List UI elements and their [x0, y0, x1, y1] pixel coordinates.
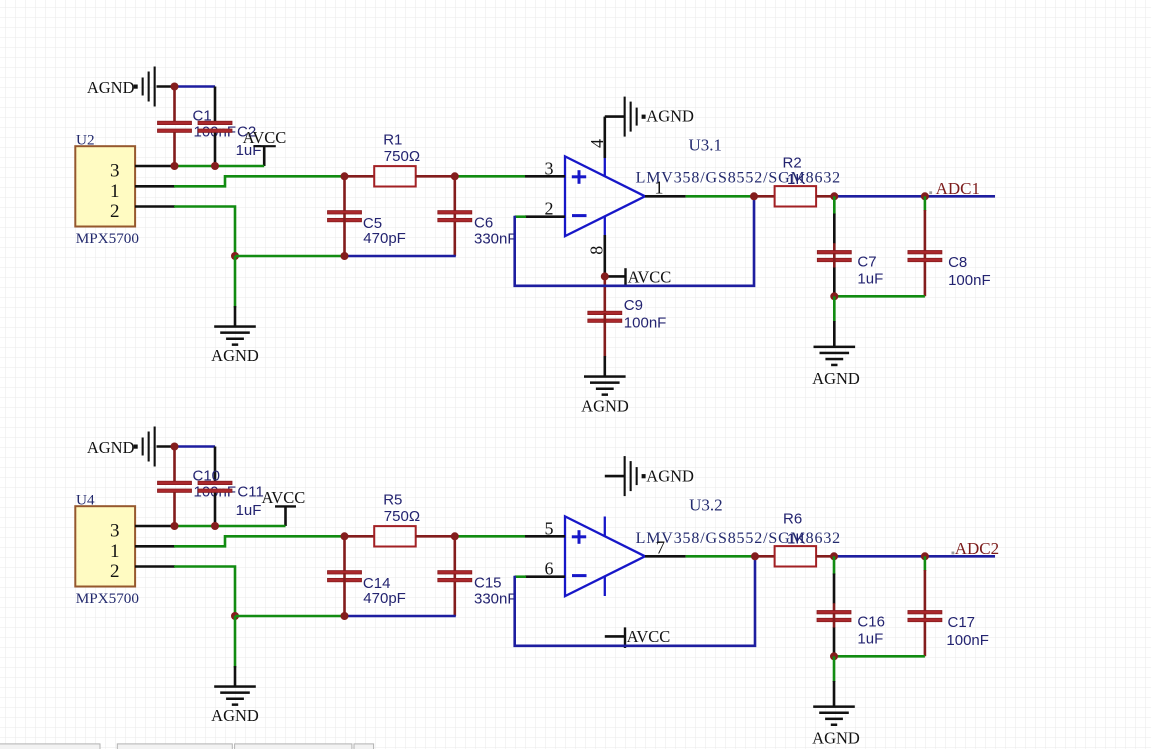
svg-text:MPX5700: MPX5700 — [76, 230, 140, 247]
ground AGND under C9 — [584, 375, 626, 396]
junction R2/C7 — [830, 192, 838, 200]
junction ADC1/C8 — [921, 192, 929, 200]
junction R6/C16 — [830, 552, 838, 560]
svg-text:ADC1: ADC1 — [936, 179, 980, 198]
wire ground stub under pin2 rail B — [234, 666, 237, 686]
wire C2 top lead down — [214, 87, 217, 122]
wire rail down to ground — [833, 296, 836, 322]
svg-text:C16: C16 — [857, 613, 885, 630]
svg-text:R5: R5 — [383, 491, 402, 508]
wire pin3 net to AVCC — [175, 165, 265, 168]
svg-text:AGND: AGND — [812, 369, 860, 388]
ground AGND above U3.1 — [624, 97, 646, 137]
wire pin2 green corner — [515, 215, 526, 218]
wire U2 pin1 stub — [135, 185, 175, 188]
wire C1 top lead — [173, 87, 176, 122]
wire C16 black lead bottom — [833, 628, 836, 657]
wire R1 right lead — [416, 175, 455, 178]
svg-text:470pF: 470pF — [363, 590, 406, 607]
svg-text:C6: C6 — [474, 214, 493, 231]
wire C11 top lead down — [214, 447, 217, 482]
junction output/feedback B — [751, 552, 759, 560]
wire output pin1 stub — [645, 195, 686, 198]
net label anchor dot ADC2 — [952, 552, 955, 555]
wire R5 to op-amp pin5 — [455, 535, 525, 538]
wire pin2 net to bottom rail B — [174, 567, 235, 617]
svg-text:C8: C8 — [948, 254, 967, 271]
wire R5 right lead — [416, 535, 455, 538]
wire pin2 rail down to ground — [234, 256, 237, 308]
capacitor C7 plates — [817, 251, 851, 262]
wire C9 ground stub — [603, 356, 606, 376]
svg-text:100nF: 100nF — [624, 314, 667, 331]
wire pin1 net to R1/C5 — [174, 176, 345, 186]
wire C5 top lead — [343, 176, 346, 211]
svg-text:8: 8 — [587, 246, 607, 255]
wire U2 pin3 stub — [135, 165, 175, 168]
wire U4 pin1 stub — [135, 545, 175, 548]
wire ADC1 segment 1 (blue) — [834, 195, 925, 198]
capacitor C14 plates — [328, 571, 362, 582]
wire C7 red lead top — [833, 243, 836, 251]
wire C7 red lead bottom — [833, 253, 836, 268]
wire ADC2 segment 2 (blue) — [925, 555, 995, 558]
wire pin1 net to R5/C14 — [174, 536, 345, 546]
svg-text:C11: C11 — [237, 484, 263, 501]
svg-text:R2: R2 — [783, 154, 802, 171]
svg-text:U3.1: U3.1 — [689, 135, 723, 154]
wire C9 bottom lead — [603, 313, 606, 357]
junction C16 bottom — [830, 652, 838, 660]
wire ADC1 segment 2 (blue) — [925, 195, 995, 198]
wire R6 right lead — [816, 555, 834, 558]
wire AVCC down to pin3 net — [263, 146, 266, 166]
wire C16 black lead — [833, 574, 836, 604]
wire C8 green lead — [924, 196, 927, 211]
svg-text:AVCC: AVCC — [262, 488, 306, 507]
wire R5 left lead — [345, 535, 375, 538]
wire ground stub under pin2 rail — [234, 306, 237, 326]
wire C16 red lead top — [833, 603, 836, 611]
junction C10/AGND — [171, 443, 179, 451]
wire C11 bottom lead — [214, 492, 217, 526]
wire pin6 green corner — [515, 575, 526, 578]
svg-text:5: 5 — [545, 518, 554, 538]
svg-text:100nF: 100nF — [946, 632, 989, 649]
wire C7 black lead — [833, 214, 836, 244]
svg-text:AGND: AGND — [87, 78, 135, 97]
wire AGND junction to C2 top (blue) — [175, 85, 216, 88]
svg-text:AGND: AGND — [646, 467, 694, 486]
wire output to R2 — [686, 195, 754, 198]
sensor U4 — [75, 506, 135, 586]
svg-text:3: 3 — [545, 158, 554, 178]
junction C15/R5 — [451, 532, 459, 540]
svg-text:C7: C7 — [857, 253, 876, 270]
svg-text:1uF: 1uF — [236, 502, 262, 519]
svg-text:AGND: AGND — [87, 438, 135, 457]
power AVCC-4 bar vertical — [624, 627, 626, 648]
wire C14-C15 bottom rail (blue) — [345, 615, 456, 618]
wire C7 black lead bottom — [833, 268, 836, 297]
capacitor C11 plates — [198, 481, 232, 492]
ground AGND earth under U2 net — [214, 325, 256, 346]
svg-text:470pF: 470pF — [363, 230, 406, 247]
svg-text:R1: R1 — [383, 131, 402, 148]
wire C5 mid lead — [343, 213, 346, 256]
svg-text:U3.2: U3.2 — [689, 495, 723, 514]
svg-text:C9: C9 — [624, 297, 643, 314]
svg-text:6: 6 — [545, 559, 554, 579]
svg-text:1: 1 — [110, 181, 120, 202]
net label anchor dot ADC1 — [929, 191, 932, 194]
power AVCC bar — [253, 145, 275, 147]
svg-text:LMV358/GS8552/SGM8632: LMV358/GS8552/SGM8632 — [636, 530, 841, 547]
junction C5 bottom — [341, 252, 349, 260]
capacitor C10 plates — [158, 481, 192, 492]
junction pin8/AVCC/C9 — [601, 272, 609, 280]
capacitor C16 plates — [817, 611, 851, 622]
wire pin2 rail down to ground B — [234, 616, 237, 668]
svg-text:1uF: 1uF — [857, 271, 883, 288]
junction C14 bottom — [341, 612, 349, 620]
svg-text:1: 1 — [655, 178, 664, 198]
power AVCC bar B — [275, 505, 296, 507]
wire op-amp pin3 stub — [525, 175, 565, 178]
capacitor C1 plates — [158, 121, 192, 132]
wire pin8 to AVCC — [605, 275, 626, 278]
svg-text:AGND: AGND — [211, 346, 259, 365]
wire C5-C6 bottom rail (blue) — [345, 255, 456, 258]
wire C8 red lead — [924, 210, 927, 296]
wire pin4 to AGND — [605, 115, 624, 118]
wire AVCC stub below U3.2 — [605, 635, 625, 638]
wire C7-C8 bottom rail — [834, 295, 925, 298]
junction output/feedback — [750, 192, 758, 200]
svg-text:330nF: 330nF — [474, 230, 517, 247]
wire C16 green lead — [833, 556, 836, 574]
svg-text:330nF: 330nF — [474, 590, 517, 607]
svg-text:100nF: 100nF — [948, 272, 991, 289]
svg-text:C15: C15 — [474, 574, 502, 591]
wire pin2 rail to C14 bottom — [235, 615, 345, 618]
ground AGND symbol above U3.2 — [624, 456, 646, 496]
svg-text:C17: C17 — [948, 614, 976, 631]
wire ground stub to junction — [157, 85, 175, 88]
svg-text:AGND: AGND — [646, 107, 694, 126]
junction pin2 rail B — [231, 612, 239, 620]
svg-text:1: 1 — [110, 541, 120, 562]
junction pin3/C11 — [211, 522, 219, 530]
svg-text:2: 2 — [110, 561, 120, 582]
wire op-amp pin2 stub — [525, 215, 565, 218]
wire op-amp pin5 stub — [525, 535, 565, 538]
wire R1 left lead — [345, 175, 375, 178]
svg-text:ADC2: ADC2 — [955, 539, 999, 558]
capacitor C9 plates — [588, 311, 622, 322]
capacitor C17 plates — [908, 611, 942, 622]
resistor R6 — [775, 546, 817, 566]
wire pin3 net to AVCC B — [175, 525, 286, 528]
op-amp U3.1 triangle — [565, 156, 645, 236]
wire R6 left lead — [755, 555, 775, 558]
wire C17 green lead — [924, 556, 927, 571]
wire C15 lead — [453, 536, 456, 616]
svg-text:AGND: AGND — [211, 706, 259, 725]
junction ADC2/C17 — [921, 552, 929, 560]
svg-text:1K: 1K — [787, 171, 805, 188]
junction pin3/C10 — [171, 522, 179, 530]
junction C6/R1 — [451, 172, 459, 180]
junction pin3/C2 — [211, 162, 219, 170]
wire C10 top lead — [173, 447, 176, 482]
op-amp U3.2 triangle — [565, 516, 645, 596]
svg-text:1uF: 1uF — [857, 631, 883, 648]
wire C6 lead — [453, 176, 456, 256]
junction C7 bottom — [830, 292, 838, 300]
resistor R2 — [775, 186, 817, 206]
svg-text:1K: 1K — [787, 531, 805, 548]
junction C5/R1 — [341, 172, 349, 180]
svg-text:U4: U4 — [76, 491, 95, 508]
wire U4 pin2 stub — [135, 565, 175, 568]
wire U4 pin3 stub — [135, 525, 175, 528]
wire output pin7 stub — [645, 555, 686, 558]
power AVCC-2 bar vertical — [624, 268, 626, 286]
ground AGND symbol top-left — [134, 67, 156, 107]
ground AGND under C7 — [814, 346, 856, 367]
svg-text:2: 2 — [545, 199, 554, 219]
wire R2 left lead — [754, 195, 775, 198]
wire ground stub to junction B — [157, 445, 175, 448]
svg-text:3: 3 — [110, 161, 120, 182]
svg-text:AVCC: AVCC — [627, 627, 671, 646]
ground AGND under C16 — [813, 705, 855, 726]
svg-text:MPX5700: MPX5700 — [76, 590, 140, 607]
svg-text:U2: U2 — [76, 131, 95, 148]
svg-text:AVCC: AVCC — [628, 267, 672, 286]
resistor R1 — [374, 166, 416, 186]
wire C16-C17 bottom rail — [834, 655, 925, 658]
capacitor C15 plates — [438, 571, 472, 582]
wire C9 top lead — [603, 276, 606, 311]
svg-text:750Ω: 750Ω — [384, 508, 420, 525]
wire op-amp pin6 stub — [525, 575, 565, 578]
wire C14 top lead — [343, 536, 346, 571]
capacitor C6 plates — [438, 211, 472, 222]
wire U2 pin2 stub — [135, 205, 175, 208]
svg-text:750Ω: 750Ω — [384, 148, 420, 165]
window edge tabs at bottom — [0, 744, 374, 749]
wire pin2 rail to C5 bottom — [235, 255, 345, 258]
junction pin3/C1 — [171, 162, 179, 170]
wire pin2 net to bottom rail — [174, 207, 235, 257]
wire ground stub under C7 — [833, 321, 836, 346]
wire C17 red lead — [924, 570, 927, 656]
ground AGND symbol bottom-left — [134, 427, 156, 467]
wire AVCC down to pin3 net B — [284, 506, 287, 526]
sensor U2 — [75, 146, 135, 226]
capacitor C8 plates — [908, 251, 942, 262]
wire pin8 down — [603, 235, 606, 276]
svg-text:AVCC: AVCC — [243, 128, 287, 147]
svg-text:3: 3 — [110, 521, 120, 542]
capacitor C2 plates — [198, 121, 232, 132]
wire C1 bottom lead — [173, 132, 176, 166]
wire AGND junction to C11 top (blue) — [175, 445, 216, 448]
wire C10 bottom lead — [173, 492, 176, 526]
svg-text:7: 7 — [656, 538, 665, 558]
wire C14 mid lead — [343, 573, 346, 616]
resistor R5 — [374, 526, 416, 546]
wire R2 right lead — [816, 195, 834, 198]
wire ground stub under C16 — [833, 681, 836, 706]
wire ADC2 segment 1 (blue) — [834, 555, 925, 558]
svg-text:R6: R6 — [783, 511, 802, 528]
wire C2 bottom lead — [214, 132, 217, 166]
junction pin2 rail — [231, 252, 239, 260]
wire pin4 up — [603, 117, 606, 158]
junction C1/AGND — [171, 83, 179, 91]
wire feedback loop (blue) — [515, 197, 754, 285]
svg-text:4: 4 — [587, 139, 607, 148]
ground AGND earth under U4 net — [214, 685, 256, 706]
svg-text:2: 2 — [110, 201, 120, 222]
junction C14/R5 — [341, 532, 349, 540]
svg-text:LMV358/GS8552/SGM8632: LMV358/GS8552/SGM8632 — [636, 170, 841, 187]
wire output to R6 — [686, 555, 755, 558]
wire C7 green lead — [833, 196, 836, 214]
svg-text:AGND: AGND — [581, 397, 629, 416]
wire R1 to op-amp pin3 — [455, 175, 525, 178]
wire feedback loop B (blue) — [515, 557, 755, 646]
wire rail down to ground B2 — [833, 656, 836, 682]
capacitor C5 plates — [328, 211, 362, 222]
svg-text:AGND: AGND — [812, 729, 860, 748]
wire C16 red lead bottom — [833, 613, 836, 628]
wire AGND stub above U3.2 — [605, 475, 624, 478]
